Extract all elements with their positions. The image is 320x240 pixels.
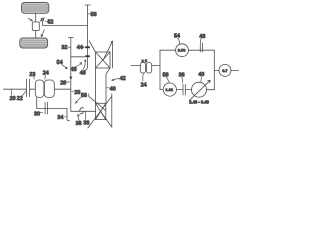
arrow to box [28,18,33,21]
wire variator to corner [207,89,215,91]
svg-text:3.7: 3.7 [222,68,227,73]
belt left [95,68,97,103]
primary cone [103,41,113,68]
direction arrow on shaft [69,77,72,80]
clutch 36 plates [183,84,185,95]
svg-text:23: 23 [29,72,35,78]
wire 52 to 58 line [42,21,87,26]
svg-text:28: 28 [74,90,80,96]
entry wire [131,65,140,67]
corner down [213,50,215,89]
primary pulley box [96,52,111,68]
svg-text:x 2: x 2 [142,58,148,63]
bottom branch wire [160,89,163,91]
variator circle 40 [192,82,207,97]
svg-text:26: 26 [60,80,66,86]
arrow to axle lower [41,30,44,37]
svg-text:34: 34 [57,115,63,121]
svg-text:56: 56 [81,93,87,99]
svg-text:52: 52 [48,20,54,26]
circle 1.02 [163,83,176,96]
wire to clutch 48 [188,49,214,51]
svg-text:58: 58 [91,12,97,18]
secondary pulley box [96,103,106,119]
engine input wire [4,88,27,90]
sleeve hook [85,66,88,70]
input shaft T-cap [68,38,73,112]
wheel front-bottom [20,38,48,48]
chain link symbol [80,108,84,114]
svg-text:2.48 - 0.40: 2.48 - 0.40 [189,99,209,104]
svg-text:44: 44 [77,45,83,51]
svg-text:38: 38 [83,120,89,126]
junction vertical [152,50,160,89]
svg-text:46: 46 [80,70,86,76]
secondary cone diagonals [89,96,106,110]
torque converter 24 [35,80,54,97]
svg-text:20: 20 [10,96,16,102]
TC output wire [54,88,70,90]
wheel front-top [22,3,49,14]
wire to clutch 36 [176,89,182,91]
secondary cone stubs [89,94,112,97]
svg-text:32: 32 [61,45,67,51]
svg-text:30: 30 [34,111,40,117]
circle 2.53 [176,44,189,57]
svg-text:36: 36 [76,121,82,127]
belt right [106,68,110,103]
wire to variator [186,89,192,91]
svg-text:40: 40 [110,86,116,92]
shaft 58 vertical [87,5,89,66]
svg-text:24: 24 [43,71,49,77]
variator arrow [189,80,210,100]
svg-text:1.02: 1.02 [166,87,174,92]
input clutch plates [27,79,30,96]
svg-text:42: 42 [120,76,126,82]
svg-text:22: 22 [17,96,23,102]
clutch 46 plates [85,55,90,57]
svg-text:2.53: 2.53 [178,48,186,53]
mini torque converter [140,63,151,74]
branch wire to clutch 46 [71,56,85,58]
shaft 34 with foot [67,108,69,120]
svg-text:48: 48 [71,67,77,73]
top branch wire [160,49,176,51]
lockup clutch bracket [37,98,67,109]
svg-text:24: 24 [141,82,147,88]
svg-text:56: 56 [163,73,169,79]
clutch 48 plates [200,43,202,52]
output wire [231,69,239,71]
stub to final drive [214,69,219,71]
clutch 44 plates [85,46,90,48]
chain drive wire [71,110,96,112]
axle shaft lower [35,31,37,39]
svg-text:36: 36 [179,73,185,79]
svg-text:48: 48 [199,34,205,40]
final drive box [32,22,39,31]
node circle 52 with slash [41,18,44,21]
axle shaft upper [35,13,37,22]
circle 3.7 [219,64,231,76]
svg-text:54: 54 [174,33,180,39]
lockup clutch plates 30 [45,102,47,114]
svg-text:54: 54 [57,60,63,66]
feed diagonal from clutch [89,41,95,52]
